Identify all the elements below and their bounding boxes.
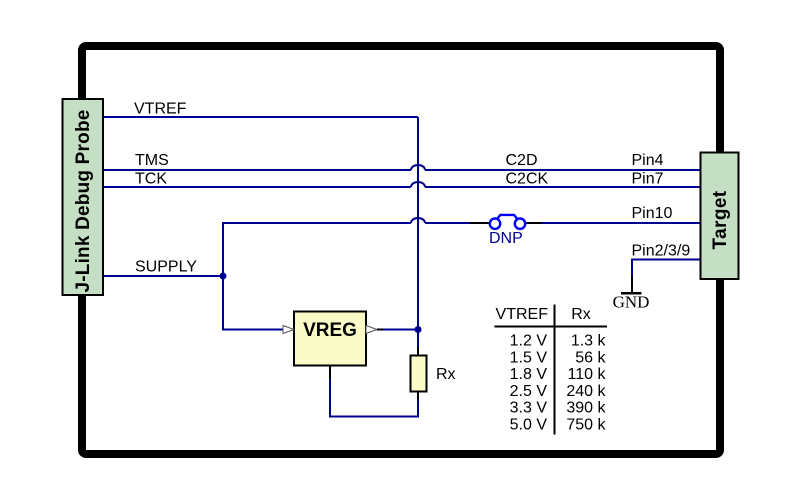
svg-text:1.5 V: 1.5 V (510, 349, 548, 366)
svg-text:2.5 V: 2.5 V (510, 383, 548, 400)
pin VREG bottom (black) (329, 366, 331, 379)
junction VREG output node (415, 326, 422, 333)
svg-text:240 k: 240 k (566, 383, 606, 400)
wire resistor bottom loop to VREG bottom (330, 376, 418, 417)
svg-text:J-Link Debug Probe: J-Link Debug Probe (73, 109, 94, 292)
jumper DNP right pad (515, 219, 525, 229)
arrow VREG output (366, 326, 377, 334)
box Target (701, 153, 739, 280)
hop TCK over vertical (411, 182, 425, 187)
wire Pin2/3/9 (632, 260, 700, 277)
frame border (82, 46, 720, 454)
wire VREG output to node (381, 329, 418, 331)
pin resistor bottom (black) (417, 391, 419, 400)
wire node down to resistor (417, 330, 419, 349)
ground bar (621, 292, 642, 295)
svg-text:TMS: TMS (135, 152, 169, 169)
jumper DNP left pad (490, 219, 500, 229)
wire VTREF horizontal (103, 116, 418, 118)
table horizontal rule (495, 326, 608, 328)
wire SUPPLY down to VREG input (223, 276, 283, 330)
svg-text:Target: Target (710, 190, 731, 249)
svg-text:VREG: VREG (303, 320, 357, 341)
svg-text:C2CK: C2CK (506, 171, 549, 188)
svg-text:DNP: DNP (489, 230, 523, 247)
wire SUPPLY (103, 275, 223, 277)
svg-text:56 k: 56 k (575, 349, 606, 366)
svg-text:VTREF: VTREF (134, 101, 187, 118)
svg-text:1.3 k: 1.3 k (571, 333, 607, 350)
wire SUPPLY up to Pin10 line (223, 223, 411, 276)
lead DNP right (black) (526, 222, 542, 224)
svg-text:5.0 V: 5.0 V (510, 417, 548, 434)
svg-text:GND: GND (613, 293, 650, 312)
resistor Rx body (411, 356, 427, 392)
wire Pin10 segment to DNP (425, 222, 470, 224)
svg-text:1.2 V: 1.2 V (510, 333, 548, 350)
wire TCK to Pin7 (103, 186, 700, 188)
svg-text:C2D: C2D (506, 152, 538, 169)
svg-text:SUPPLY: SUPPLY (135, 259, 197, 276)
table vertical rule (554, 305, 556, 435)
svg-text:Rx: Rx (571, 306, 591, 323)
pin resistor top (black) (417, 347, 419, 356)
svg-text:3.3 V: 3.3 V (510, 400, 548, 417)
arrow VREG input (283, 326, 294, 334)
lead VREG output (black) (377, 329, 383, 331)
wire TMS to Pin4 (103, 169, 700, 171)
svg-text:TCK: TCK (135, 171, 167, 188)
svg-text:Pin10: Pin10 (632, 205, 673, 222)
junction SUPPLY node (220, 273, 227, 280)
wire VTREF vertical (417, 117, 419, 330)
svg-text:Pin4: Pin4 (632, 152, 664, 169)
wire DNP right to Target Pin10 (541, 222, 700, 224)
jumper DNP bracket (497, 215, 518, 220)
box J-Link Debug Probe (63, 99, 104, 295)
svg-text:750 k: 750 k (566, 417, 606, 434)
svg-text:390 k: 390 k (566, 400, 606, 417)
lead GND (black) (631, 276, 633, 293)
svg-text:VTREF: VTREF (496, 306, 549, 323)
hop Pin10 wire over vertical (411, 218, 425, 223)
svg-text:Rx: Rx (436, 366, 456, 383)
svg-text:1.8 V: 1.8 V (510, 366, 548, 383)
lead DNP left (black) (470, 222, 492, 224)
svg-text:110 k: 110 k (568, 366, 607, 383)
hop TMS over vertical (411, 165, 425, 170)
svg-text:Pin2/3/9: Pin2/3/9 (632, 243, 691, 260)
regulator VREG box (294, 312, 366, 366)
svg-text:Pin7: Pin7 (632, 171, 664, 188)
